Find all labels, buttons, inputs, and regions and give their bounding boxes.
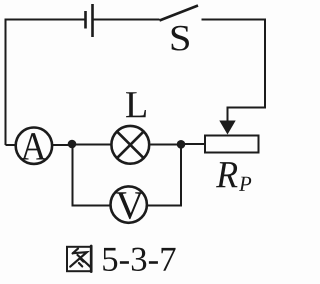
ammeter A [16, 128, 52, 164]
wire rheostat to lamp junction [181, 143, 205, 145]
switch S blade [160, 6, 199, 21]
wire junction to lamp [151, 144, 182, 146]
wire lamp to left junction [72, 144, 111, 146]
label S [172, 26, 189, 51]
battery B1 [86, 4, 93, 37]
wire junction to ammeter [53, 144, 72, 146]
wire switch to top-right corner [202, 19, 267, 21]
label L [126, 92, 146, 117]
wire left vertical [5, 19, 7, 146]
rheostat RP body [205, 136, 259, 153]
junction node left of lamp [68, 140, 77, 149]
wire ammeter to left vertical [6, 144, 16, 146]
wire voltmeter branch left [73, 144, 111, 206]
junction node right of lamp [177, 140, 186, 149]
voltmeter V [111, 186, 147, 222]
label RP [216, 162, 251, 191]
rheostat wiper arrow [219, 121, 235, 135]
caption character 图 [67, 246, 91, 272]
wire voltmeter branch right [148, 144, 182, 206]
lamp L [111, 126, 149, 164]
caption text 5-3-7 [103, 248, 175, 271]
wire to wiper [228, 108, 267, 123]
wire right vertical [264, 19, 266, 108]
wire top-left horizontal (battery to left corner) [6, 19, 86, 21]
wire battery to switch [93, 19, 160, 21]
